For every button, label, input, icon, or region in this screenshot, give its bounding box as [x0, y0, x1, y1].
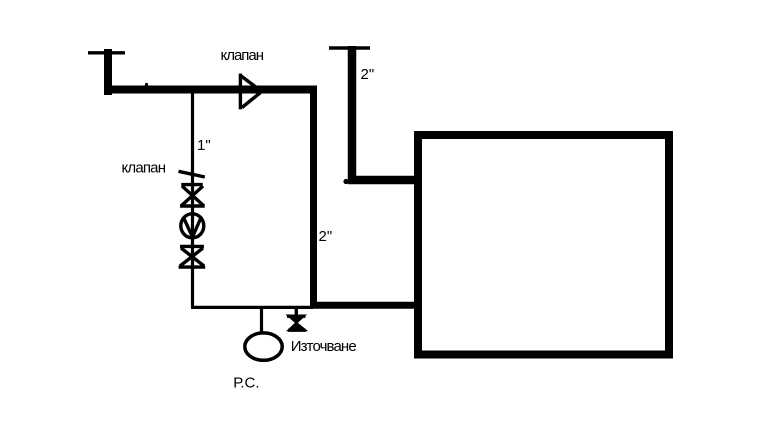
junction dot on main pipe	[145, 83, 148, 86]
svg-text:1": 1"	[197, 137, 211, 154]
svg-text:клапан: клапан	[221, 47, 265, 64]
tick top-left supply stub	[88, 51, 125, 54]
svg-text:Р.С.: Р.С.	[233, 375, 259, 392]
valve handle slash	[179, 171, 205, 177]
tank rectangle	[418, 135, 669, 355]
wire 1in thin vertical line	[191, 92, 194, 307]
expansion vessel P.C. circle	[245, 333, 282, 360]
tick top-right supply stub	[329, 46, 370, 49]
pipe top-right horizontal into tank	[348, 176, 417, 185]
svg-text:Източване: Източване	[291, 338, 357, 355]
pipe main horizontal	[104, 86, 317, 94]
wire thin bottom horizontal line	[191, 306, 313, 309]
gate valve V2	[179, 246, 206, 267]
pipe top-left riser	[104, 49, 112, 95]
pipe bottom to tank	[310, 302, 421, 309]
svg-text:клапан: клапан	[122, 160, 167, 177]
svg-text:2": 2"	[319, 228, 333, 245]
drain valve (filled)	[287, 316, 306, 331]
pipe top-right riser	[348, 46, 357, 184]
pump circle	[181, 214, 204, 238]
svg-text:2": 2"	[361, 66, 375, 83]
wire stub to drain valve	[295, 308, 298, 317]
wire stub to expansion vessel	[260, 308, 263, 332]
pipe 2in drop	[310, 86, 317, 309]
junction nub at top-right elbow	[343, 179, 348, 184]
gate valve V1	[180, 185, 205, 206]
check valve on main pipe	[240, 74, 260, 110]
